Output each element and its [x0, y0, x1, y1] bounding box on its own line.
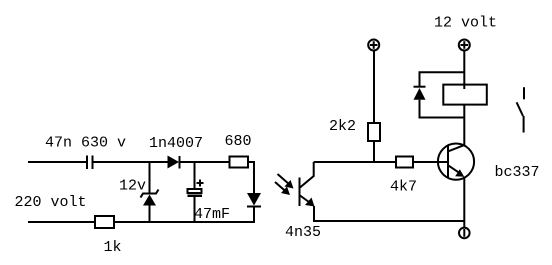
capacitor C2 47mF electrolytic	[188, 180, 204, 198]
wire 2k2 to rail junction	[373, 141, 375, 162]
wire top-left mains lead	[28, 161, 87, 163]
svg-text:4k7: 4k7	[390, 179, 417, 196]
wire emitter to bottom terminal	[463, 177, 465, 228]
capacitor C1 47n	[87, 156, 93, 170]
label 47mF	[194, 206, 230, 223]
svg-text:12v: 12v	[119, 178, 146, 195]
zener diode D1 12v	[141, 190, 159, 206]
terminal P1 plus	[368, 40, 379, 51]
freewheel diode D4 loop top wire	[420, 72, 465, 86]
resistor R3 680	[230, 157, 249, 168]
svg-text:12 volt: 12 volt	[434, 15, 497, 32]
transistor Q1 base bar	[447, 146, 449, 178]
wire capacitor to diode	[93, 161, 168, 163]
label 4n35	[285, 224, 321, 241]
label 12v	[119, 178, 146, 195]
optocoupler U1 phototransistor base bar	[299, 178, 301, 207]
wire 4k7 to transistor base	[413, 161, 448, 163]
wire diode to resistor 680	[180, 161, 230, 163]
label 1n4007	[149, 135, 203, 152]
wire 680 to corner down to LED	[248, 162, 254, 193]
wire relay to transistor collector	[463, 105, 465, 146]
freewheel diode D4	[414, 87, 426, 100]
terminal P2 plus	[459, 40, 470, 51]
transistor Q1 circle	[438, 144, 474, 180]
transistor Q1 collector lead	[448, 145, 465, 152]
svg-text:1n4007: 1n4007	[149, 135, 203, 152]
resistor R5 4k7	[396, 157, 413, 168]
optocoupler U1 emitter lead with arrow	[300, 196, 315, 223]
label 47n 630 v	[45, 135, 126, 152]
wire bottom emitter rail	[314, 220, 465, 222]
wire LED to bottom rail	[253, 207, 255, 224]
wire zener bottom lead	[149, 206, 151, 223]
optocoupler U1 collector lead	[300, 162, 314, 188]
wire bottom rail	[114, 221, 255, 223]
svg-text:220 volt: 220 volt	[15, 194, 87, 211]
label 2k2	[329, 118, 356, 135]
wire zener top lead	[149, 162, 151, 194]
label 680	[225, 133, 252, 150]
resistor R4 2k2	[368, 123, 380, 141]
terminal P3 bottom	[459, 228, 470, 239]
svg-text:680: 680	[225, 133, 252, 150]
resistor R1 1k	[95, 216, 114, 228]
label 12 volt	[434, 15, 497, 32]
wire capacitor C2 bottom lead	[194, 197, 196, 222]
wire terminal P2 into relay coil	[463, 51, 465, 90]
switch S1	[517, 87, 524, 132]
wire bottom-left mains lead	[28, 221, 95, 223]
wire capacitor C2 top lead	[194, 162, 196, 189]
svg-text:bc337: bc337	[495, 164, 540, 181]
label 4k7	[390, 179, 417, 196]
label 1k	[104, 239, 122, 256]
svg-text:2k2: 2k2	[329, 118, 356, 135]
svg-text:1k: 1k	[104, 239, 122, 256]
optocoupler U1 light arrows	[275, 174, 294, 195]
LED of optocoupler U1 (anode side)	[247, 193, 261, 207]
transistor Q1 emitter lead with arrow	[448, 165, 464, 176]
freewheel diode D4 loop bottom wire	[420, 100, 465, 118]
svg-text:47n 630 v: 47n 630 v	[45, 135, 126, 152]
label 220 volt	[15, 194, 87, 211]
svg-text:4n35: 4n35	[285, 224, 321, 241]
diode D2 1n4007	[168, 156, 180, 169]
svg-text:47mF: 47mF	[194, 206, 230, 223]
wire collector rail to base network	[314, 161, 396, 163]
relay K1 coil box	[443, 85, 487, 105]
wire terminal P1 to 2k2	[373, 51, 375, 124]
label bc337	[495, 164, 540, 181]
